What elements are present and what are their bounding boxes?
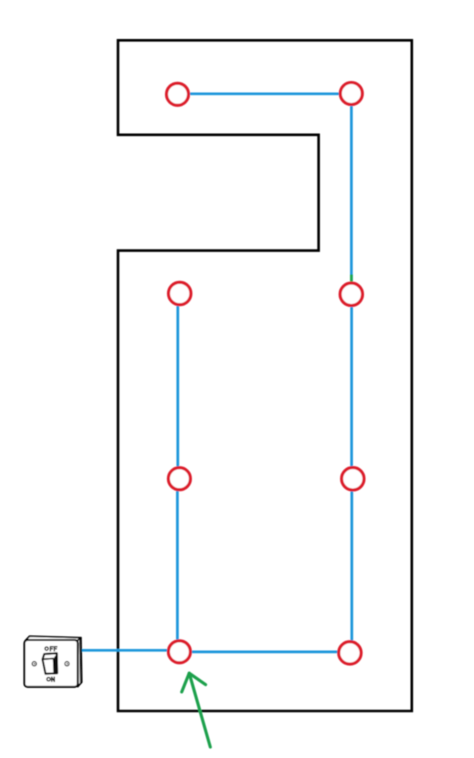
arrow barb right <box>189 673 205 684</box>
switch box right face <box>78 638 82 687</box>
wire right column lower <box>350 491 353 641</box>
wire left column lower <box>176 491 179 640</box>
lamp mid-left lower <box>168 468 190 490</box>
green arrow pointing at bottom-left lamp <box>182 673 211 747</box>
wire bottom horizontal <box>191 651 338 654</box>
wire right column middle <box>350 306 353 467</box>
lamp bottom-left <box>168 641 190 663</box>
green paint fleck on wire <box>350 275 353 282</box>
switch box bevel line <box>79 639 82 683</box>
switch front plate <box>24 640 77 687</box>
light switch SW1 <box>24 636 81 687</box>
lamp bottom-right <box>339 642 361 664</box>
label ON (drawn) <box>47 677 54 681</box>
switch box top face <box>26 636 81 641</box>
wire from switch <box>82 649 167 652</box>
toggle front right edge <box>53 659 56 673</box>
lamp mid-left upper <box>169 282 191 304</box>
arrow shaft <box>189 673 210 747</box>
lamp mid-right lower <box>342 468 364 490</box>
toggle side shading <box>53 653 57 673</box>
screw right <box>65 662 69 666</box>
wall outline (building plan) <box>118 40 412 711</box>
screw left <box>32 662 36 666</box>
toggle body <box>43 653 58 674</box>
wire left column upper <box>176 305 179 467</box>
wire right column upper <box>350 105 353 282</box>
lamp top-left <box>167 83 189 105</box>
toggle knob top edge <box>43 658 54 661</box>
arrow barb left <box>182 673 190 692</box>
label OFF (drawn) <box>45 647 57 651</box>
lamp mid-right upper <box>340 283 362 305</box>
lamp top-right <box>340 83 362 105</box>
wire top horizontal <box>190 92 340 95</box>
